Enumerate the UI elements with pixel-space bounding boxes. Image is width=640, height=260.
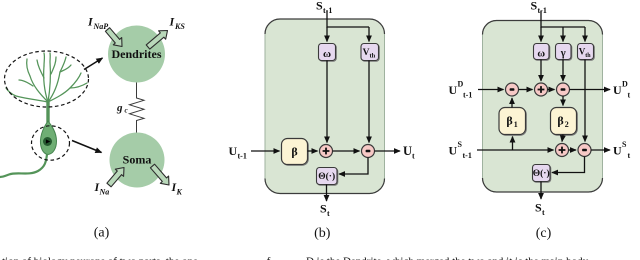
svg-text:Dendrites: Dendrites bbox=[112, 47, 162, 61]
svg-text:U: U bbox=[613, 144, 622, 158]
svg-text:S: S bbox=[458, 140, 463, 149]
svg-text:γ: γ bbox=[560, 48, 566, 59]
svg-text:U: U bbox=[613, 83, 622, 97]
svg-text:KS: KS bbox=[174, 22, 185, 31]
svg-text:t-1: t-1 bbox=[538, 6, 547, 15]
svg-text:β: β bbox=[291, 145, 297, 159]
svg-text:S: S bbox=[320, 202, 327, 216]
svg-text:tion of biology neurons of two: tion of biology neurons of two parts, th… bbox=[2, 256, 589, 260]
svg-text:β: β bbox=[506, 114, 512, 128]
svg-text:NaP: NaP bbox=[93, 22, 109, 31]
svg-text:ω: ω bbox=[537, 49, 545, 60]
svg-text:1: 1 bbox=[514, 120, 518, 129]
svg-text:t-1: t-1 bbox=[238, 152, 247, 161]
svg-text:S: S bbox=[531, 0, 538, 13]
svg-text:U: U bbox=[449, 83, 458, 97]
svg-text:(a): (a) bbox=[94, 226, 110, 241]
svg-text:ω: ω bbox=[323, 48, 331, 60]
svg-text:D: D bbox=[458, 80, 464, 89]
svg-text:c: c bbox=[125, 107, 128, 115]
svg-text:t-1: t-1 bbox=[323, 6, 332, 15]
svg-text:t: t bbox=[412, 152, 415, 161]
svg-text:t: t bbox=[628, 151, 631, 160]
svg-text:g: g bbox=[116, 102, 123, 114]
svg-text:Soma: Soma bbox=[123, 153, 152, 167]
svg-text:t: t bbox=[628, 91, 631, 100]
svg-text:Θ(·): Θ(·) bbox=[318, 171, 335, 182]
svg-text:Θ(·): Θ(·) bbox=[533, 168, 550, 179]
svg-text:V: V bbox=[363, 48, 370, 58]
svg-text:U: U bbox=[449, 144, 458, 158]
svg-text:t-1: t-1 bbox=[463, 91, 472, 100]
svg-text:S: S bbox=[535, 201, 542, 215]
svg-text:U: U bbox=[229, 144, 238, 158]
svg-text:2: 2 bbox=[565, 120, 569, 129]
svg-text:(c): (c) bbox=[536, 226, 552, 241]
svg-text:S: S bbox=[316, 0, 323, 13]
svg-text:S: S bbox=[622, 140, 627, 149]
svg-text:(b): (b) bbox=[314, 226, 331, 241]
svg-text:U: U bbox=[403, 144, 412, 158]
svg-text:th: th bbox=[370, 53, 376, 60]
svg-text:Na: Na bbox=[99, 188, 110, 197]
svg-text:th: th bbox=[585, 53, 591, 59]
svg-text:β: β bbox=[557, 114, 563, 128]
svg-text:K: K bbox=[176, 188, 183, 197]
svg-text:D: D bbox=[622, 80, 628, 89]
svg-text:t: t bbox=[542, 208, 545, 217]
svg-text:t: t bbox=[327, 209, 330, 218]
svg-text:t-1: t-1 bbox=[463, 151, 472, 160]
